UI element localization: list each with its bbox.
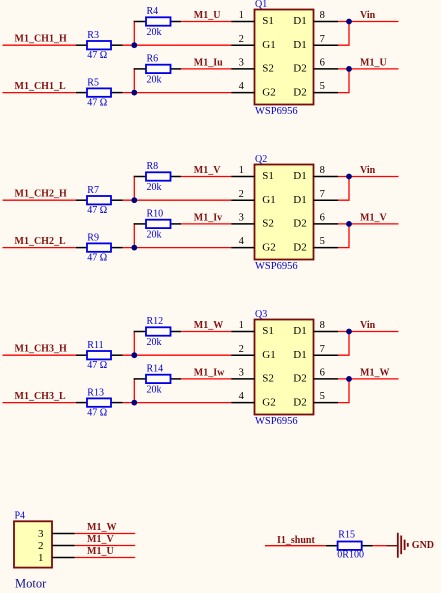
svg-text:R11: R11: [87, 340, 103, 351]
svg-text:6: 6: [320, 368, 325, 379]
svg-text:D1: D1: [293, 39, 306, 51]
wire M1_CH1_H: [3, 44, 77, 46]
junction on G1 row: [131, 197, 137, 203]
pin 3 stub: [231, 378, 254, 380]
svg-text:M1_W: M1_W: [87, 522, 116, 533]
pin 4 stub: [231, 92, 254, 94]
svg-text:G1: G1: [262, 194, 275, 206]
svg-text:R12: R12: [147, 316, 164, 327]
svg-text:Motor: Motor: [15, 577, 47, 591]
wire junction up to R4: [133, 21, 135, 45]
wire junction up to R14: [133, 378, 135, 402]
wire R12 to pin 1: [181, 331, 231, 333]
pin 7 stub: [314, 354, 339, 356]
svg-text:M1_CH2_H: M1_CH2_H: [15, 188, 67, 199]
svg-text:WSP6956: WSP6956: [255, 416, 298, 427]
junction Vin: [346, 174, 352, 180]
svg-text:G1: G1: [262, 39, 275, 51]
wire pin 5 to M1_V node: [338, 224, 349, 248]
svg-text:2: 2: [239, 34, 244, 45]
svg-text:47 Ω: 47 Ω: [87, 407, 107, 418]
svg-text:6: 6: [320, 58, 325, 69]
wire I1_shunt: [265, 545, 326, 547]
svg-text:D2: D2: [293, 86, 306, 98]
wire R3 to pin 2: [123, 44, 232, 46]
svg-text:R5: R5: [87, 78, 99, 89]
svg-text:1: 1: [239, 320, 244, 331]
wire R4 to pin 1: [181, 21, 231, 23]
svg-text:M1_W: M1_W: [194, 320, 223, 331]
pin 5 stub: [314, 92, 339, 94]
svg-text:D2: D2: [293, 218, 306, 230]
wire M1_CH2_H: [3, 199, 77, 201]
svg-text:M1_W: M1_W: [360, 368, 389, 379]
wire junction up to R12: [133, 331, 135, 355]
svg-text:R14: R14: [147, 363, 164, 374]
wire M1_CH2_L: [3, 247, 77, 249]
wire Vin (pin 8): [338, 331, 399, 333]
svg-text:D1: D1: [293, 170, 306, 182]
wire pin 5 to M1_U node: [338, 69, 349, 93]
connector P4: [14, 521, 52, 567]
wire M1_V (pin 6): [338, 223, 399, 225]
pin 6 stub: [314, 378, 339, 380]
svg-text:1: 1: [239, 10, 244, 21]
svg-text:7: 7: [320, 34, 325, 45]
svg-text:20k: 20k: [147, 27, 162, 38]
pin 5 stub: [314, 402, 339, 404]
svg-text:M1_CH1_L: M1_CH1_L: [15, 81, 66, 92]
svg-text:WSP6956: WSP6956: [255, 261, 298, 272]
junction Vin: [346, 329, 352, 335]
svg-text:D1: D1: [293, 15, 306, 27]
wire R5 to pin 4: [123, 92, 232, 94]
wire Vin (pin 8): [338, 176, 399, 178]
wire M1_CH3_L: [3, 402, 77, 404]
pin 7 stub: [314, 199, 339, 201]
svg-text:G2: G2: [262, 241, 275, 253]
resistor R4: [134, 17, 181, 25]
svg-text:D2: D2: [293, 396, 306, 408]
wire junction up to R6: [133, 68, 135, 92]
wire M1_U (pin 6): [338, 68, 399, 70]
pin 6 stub: [314, 68, 339, 70]
svg-text:WSP6956: WSP6956: [255, 106, 298, 117]
svg-text:5: 5: [320, 391, 325, 402]
junction on G2 row: [131, 90, 137, 96]
svg-text:R10: R10: [147, 208, 164, 219]
svg-text:Vin: Vin: [360, 320, 376, 331]
resistor R5: [76, 88, 123, 96]
pin 3 stub: [231, 223, 254, 225]
svg-text:M1_Iu: M1_Iu: [194, 57, 223, 68]
pin 1 stub: [231, 331, 254, 333]
svg-text:8: 8: [320, 320, 325, 331]
svg-text:D2: D2: [293, 373, 306, 385]
svg-text:R8: R8: [147, 161, 159, 172]
svg-text:G1: G1: [262, 349, 275, 361]
svg-text:M1_CH3_H: M1_CH3_H: [15, 343, 67, 354]
pin 2 stub: [231, 354, 254, 356]
pin 7 stub: [314, 44, 339, 46]
svg-text:M1_Iv: M1_Iv: [194, 212, 222, 223]
svg-text:Q1: Q1: [255, 0, 267, 10]
svg-text:M1_U: M1_U: [360, 58, 387, 69]
svg-text:M1_U: M1_U: [194, 10, 221, 21]
wire R13 to pin 4: [123, 402, 232, 404]
svg-text:2: 2: [38, 540, 44, 552]
resistor R13: [76, 398, 123, 406]
svg-text:S2: S2: [262, 218, 274, 230]
pin 1 stub: [52, 557, 75, 559]
svg-text:GND: GND: [412, 540, 434, 551]
transistor Q2 WSP6956: [255, 165, 314, 260]
resistor R10: [134, 220, 181, 228]
resistor R3: [76, 41, 123, 49]
wire M1_U: [75, 557, 135, 559]
svg-text:Vin: Vin: [360, 10, 376, 21]
svg-text:D1: D1: [293, 349, 306, 361]
svg-text:0R100: 0R100: [337, 550, 364, 561]
transistor Q1 WSP6956: [255, 10, 314, 105]
wire M1_CH1_L: [3, 92, 77, 94]
svg-text:S1: S1: [262, 15, 274, 27]
svg-text:R13: R13: [87, 388, 104, 399]
svg-text:2: 2: [239, 344, 244, 355]
wire junction up to R8: [133, 176, 135, 200]
svg-text:3: 3: [239, 58, 244, 69]
junction on G2 row: [131, 245, 137, 251]
wire R7 to pin 2: [123, 199, 232, 201]
svg-text:R9: R9: [87, 233, 99, 244]
svg-text:G2: G2: [262, 86, 275, 98]
pin 8 stub: [314, 176, 339, 178]
svg-text:20k: 20k: [147, 337, 162, 348]
svg-text:D1: D1: [293, 194, 306, 206]
svg-text:R4: R4: [147, 6, 159, 17]
svg-text:4: 4: [239, 391, 245, 402]
svg-text:D2: D2: [293, 63, 306, 75]
svg-text:Q2: Q2: [255, 154, 267, 165]
svg-text:4: 4: [239, 236, 245, 247]
svg-text:D1: D1: [293, 325, 306, 337]
junction on G2 row: [131, 400, 137, 406]
svg-text:47 Ω: 47 Ω: [87, 360, 107, 371]
svg-text:R3: R3: [87, 30, 99, 41]
svg-text:S2: S2: [262, 63, 274, 75]
pin 3 stub: [52, 533, 75, 535]
pin 5 stub: [314, 247, 339, 249]
resistor R6: [134, 65, 181, 73]
pin 1 stub: [231, 21, 254, 23]
junction M1_V: [346, 221, 352, 227]
pin 2 stub: [231, 199, 254, 201]
svg-text:I1_shunt: I1_shunt: [277, 535, 315, 546]
svg-text:5: 5: [320, 81, 325, 92]
wire R10 to pin 3: [181, 223, 231, 225]
svg-text:20k: 20k: [147, 384, 162, 395]
svg-text:4: 4: [239, 81, 245, 92]
resistor R9: [76, 243, 123, 251]
wire pin 5 to M1_W node: [338, 379, 349, 403]
wire Vin (pin 8): [338, 21, 399, 23]
svg-text:8: 8: [320, 165, 325, 176]
svg-text:1: 1: [239, 165, 244, 176]
svg-text:R6: R6: [147, 53, 159, 64]
resistor R15: [326, 542, 373, 550]
wire M1_W: [75, 533, 135, 535]
svg-text:2: 2: [239, 189, 244, 200]
resistor R12: [134, 327, 181, 335]
svg-text:D2: D2: [293, 241, 306, 253]
svg-text:20k: 20k: [147, 229, 162, 240]
svg-text:M1_CH1_H: M1_CH1_H: [15, 33, 67, 44]
wire R9 to pin 4: [123, 247, 232, 249]
junction on G1 row: [131, 352, 137, 358]
svg-text:R7: R7: [87, 185, 99, 196]
pin 4 stub: [231, 402, 254, 404]
svg-text:M1_Iw: M1_Iw: [194, 367, 225, 378]
wire pin 7 to Vin node: [338, 177, 349, 201]
wire pin 7 to Vin node: [338, 332, 349, 356]
svg-text:P4: P4: [15, 511, 26, 522]
svg-text:3: 3: [38, 528, 44, 540]
svg-text:M1_V: M1_V: [194, 165, 221, 176]
svg-text:20k: 20k: [147, 182, 162, 193]
svg-text:3: 3: [239, 213, 244, 224]
svg-text:6: 6: [320, 213, 325, 224]
svg-text:S1: S1: [262, 170, 274, 182]
pin 1 stub: [231, 176, 254, 178]
svg-text:47 Ω: 47 Ω: [87, 252, 107, 263]
wire R8 to pin 1: [181, 176, 231, 178]
svg-text:Vin: Vin: [360, 165, 376, 176]
svg-text:47 Ω: 47 Ω: [87, 50, 107, 61]
svg-text:20k: 20k: [147, 74, 162, 85]
svg-text:7: 7: [320, 344, 325, 355]
junction M1_U: [346, 66, 352, 72]
svg-text:M1_CH2_L: M1_CH2_L: [15, 236, 66, 247]
svg-text:3: 3: [239, 368, 244, 379]
transistor Q3 WSP6956: [255, 320, 314, 415]
wire R11 to pin 2: [123, 354, 232, 356]
svg-text:M1_U: M1_U: [87, 546, 114, 557]
wire R6 to pin 3: [181, 68, 231, 70]
svg-text:S2: S2: [262, 373, 274, 385]
junction M1_W: [346, 376, 352, 382]
ground GND: [386, 533, 408, 558]
wire M1_CH3_H: [3, 354, 77, 356]
pin 6 stub: [314, 223, 339, 225]
svg-text:Q3: Q3: [255, 309, 267, 320]
wire M1_W (pin 6): [338, 378, 399, 380]
pin 8 stub: [314, 21, 339, 23]
svg-text:S1: S1: [262, 325, 274, 337]
wire M1_V: [75, 545, 135, 547]
wire junction up to R10: [133, 223, 135, 247]
svg-text:7: 7: [320, 189, 325, 200]
resistor R8: [134, 172, 181, 180]
svg-text:M1_V: M1_V: [360, 213, 387, 224]
resistor R7: [76, 196, 123, 204]
svg-text:R15: R15: [338, 529, 355, 540]
svg-text:47 Ω: 47 Ω: [87, 205, 107, 216]
wire R15 to GND: [373, 545, 387, 547]
svg-text:5: 5: [320, 236, 325, 247]
resistor R14: [134, 375, 181, 383]
pin 4 stub: [231, 247, 254, 249]
pin 2 stub: [52, 545, 75, 547]
svg-text:1: 1: [38, 552, 44, 564]
junction on G1 row: [131, 42, 137, 48]
wire pin 7 to Vin node: [338, 22, 349, 46]
svg-text:8: 8: [320, 10, 325, 21]
pin 8 stub: [314, 331, 339, 333]
pin 3 stub: [231, 68, 254, 70]
svg-text:M1_CH3_L: M1_CH3_L: [15, 391, 66, 402]
svg-text:47 Ω: 47 Ω: [87, 97, 107, 108]
svg-text:M1_V: M1_V: [87, 534, 114, 545]
wire R14 to pin 3: [181, 378, 231, 380]
pin 2 stub: [231, 44, 254, 46]
junction Vin: [346, 19, 352, 25]
resistor R11: [76, 351, 123, 359]
svg-text:G2: G2: [262, 396, 275, 408]
